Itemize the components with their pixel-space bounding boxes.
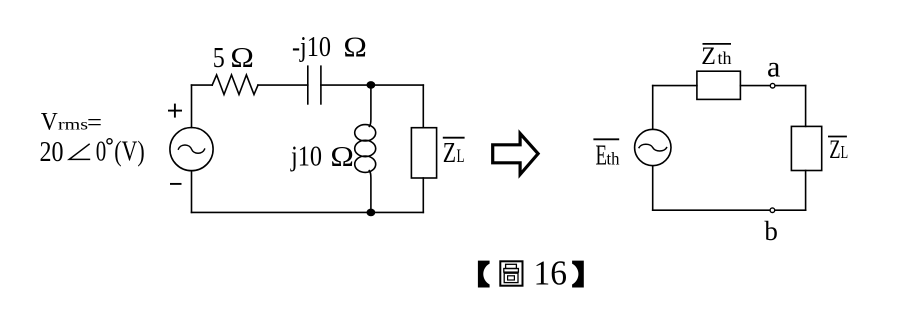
svg-text:Ω: Ω bbox=[230, 42, 254, 74]
caption right lenticular bracket bbox=[572, 261, 584, 288]
label 20 angle 0 deg (V) bbox=[40, 137, 145, 169]
svg-text:th: th bbox=[718, 48, 732, 68]
wire: terminal a to top-right corner bbox=[775, 85, 806, 87]
wire: right circuit right vertical top bbox=[805, 86, 807, 127]
source V circle bbox=[170, 128, 213, 171]
caption CJK character tu (figure) bbox=[500, 261, 522, 285]
degree symbol bbox=[107, 139, 112, 144]
svg-text:V: V bbox=[41, 109, 58, 136]
svg-text:Ω: Ω bbox=[330, 141, 354, 173]
node dot: top junction bbox=[367, 81, 376, 89]
sine symbol inside source V bbox=[178, 145, 204, 153]
svg-text:-j10: -j10 bbox=[292, 31, 331, 63]
svg-text:20: 20 bbox=[40, 137, 64, 168]
svg-text:b: b bbox=[764, 216, 778, 246]
wire: left circuit left vertical top bbox=[191, 85, 193, 127]
svg-text:=: = bbox=[87, 110, 102, 137]
svg-text:Z: Z bbox=[829, 135, 840, 164]
load box ZL (right circuit) bbox=[791, 126, 821, 170]
svg-text:j10: j10 bbox=[290, 140, 322, 172]
wire: left circuit right vertical (bottom) bbox=[422, 178, 424, 212]
resistor R 5ohm bbox=[212, 75, 258, 95]
caption left lenticular bracket bbox=[478, 261, 490, 288]
label ZL with overline (left circuit) bbox=[443, 138, 465, 169]
wire: right circuit top wire, left segment bbox=[653, 85, 697, 87]
label j10 ohm bbox=[290, 140, 354, 172]
svg-text:16: 16 bbox=[534, 254, 568, 293]
wire: bottom wire b to right corner bbox=[775, 209, 806, 211]
label Eth with overline bbox=[593, 139, 619, 171]
wire: capacitor to top-right corner (through node) bbox=[321, 84, 423, 86]
wire: resistor to capacitor bbox=[258, 84, 308, 86]
svg-text:L: L bbox=[457, 146, 465, 167]
svg-text:E: E bbox=[596, 141, 608, 172]
plus sign of source bbox=[168, 104, 182, 118]
wire: left circuit left vertical bottom bbox=[191, 171, 193, 213]
label Vrms= bbox=[41, 109, 102, 137]
load box ZL (left circuit) bbox=[411, 128, 436, 178]
wire: left circuit bottom wire bbox=[192, 211, 424, 213]
svg-text:0: 0 bbox=[96, 137, 107, 168]
minus sign of source bbox=[170, 183, 182, 185]
wire: inductor branch bottom stub bbox=[369, 171, 371, 213]
label -j10 ohm bbox=[292, 31, 367, 64]
wire: Zth box to terminal a bbox=[740, 85, 770, 87]
wire: right circuit left vertical top bbox=[652, 86, 654, 130]
wire: left circuit right vertical (top) bbox=[422, 85, 424, 128]
block arrow bbox=[493, 134, 538, 175]
svg-text:(V): (V) bbox=[114, 137, 145, 168]
wire: right circuit left vertical bottom bbox=[652, 166, 654, 211]
inductor L j10ohm coil loops bbox=[355, 125, 376, 141]
terminal a circle bbox=[770, 83, 775, 88]
svg-text:Z: Z bbox=[701, 43, 716, 70]
svg-text:5: 5 bbox=[213, 42, 225, 74]
node dot: bottom junction bbox=[367, 209, 376, 217]
label ZL with overline (right circuit) bbox=[828, 135, 848, 164]
wire: right circuit right vertical bottom bbox=[805, 171, 807, 211]
impedance box Zth bbox=[697, 71, 741, 99]
wire: inductor branch top stub bbox=[369, 85, 371, 126]
svg-text:L: L bbox=[841, 142, 849, 162]
svg-text:rms: rms bbox=[58, 117, 88, 134]
terminal b circle bbox=[770, 208, 775, 213]
capacitor C -j10ohm plates bbox=[307, 66, 309, 104]
label Zth with overline bbox=[701, 43, 731, 70]
sine symbol inside source Eth bbox=[639, 144, 667, 151]
svg-text:Ω: Ω bbox=[343, 32, 367, 64]
angle symbol bbox=[69, 144, 90, 160]
label 5 ohm bbox=[213, 42, 254, 74]
wire: bottom wire left segment to terminal b bbox=[653, 209, 770, 211]
wire: left circuit top wire, source to resistor bbox=[192, 84, 213, 86]
svg-text:th: th bbox=[607, 149, 620, 169]
svg-text:a: a bbox=[767, 51, 780, 84]
svg-text:Z: Z bbox=[443, 138, 456, 169]
source Eth circle bbox=[635, 129, 671, 165]
